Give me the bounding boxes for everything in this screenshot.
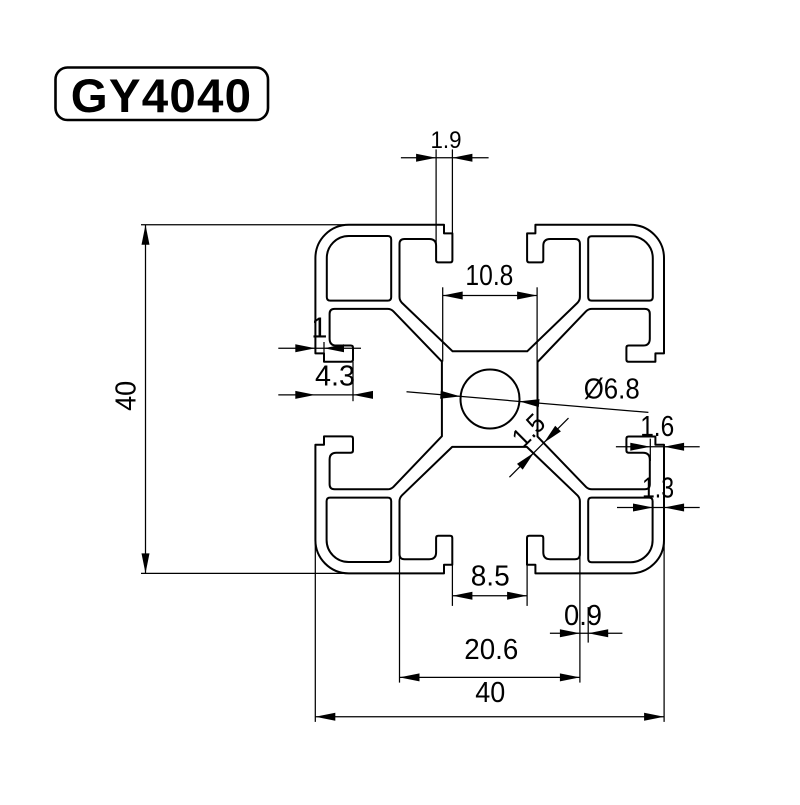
- svg-text:1.6: 1.6: [640, 411, 674, 443]
- svg-text:40: 40: [475, 677, 505, 709]
- svg-text:40: 40: [111, 381, 143, 411]
- svg-text:8.5: 8.5: [471, 561, 510, 593]
- svg-text:0.9: 0.9: [564, 600, 602, 632]
- svg-text:20.6: 20.6: [464, 634, 518, 666]
- svg-text:GY4040: GY4040: [71, 70, 253, 123]
- svg-text:Ø6.8: Ø6.8: [584, 374, 640, 406]
- svg-text:1.3: 1.3: [642, 473, 674, 505]
- svg-text:1.9: 1.9: [431, 127, 462, 154]
- svg-text:1: 1: [311, 313, 327, 345]
- svg-text:4.3: 4.3: [315, 361, 355, 393]
- svg-text:10.8: 10.8: [465, 260, 513, 292]
